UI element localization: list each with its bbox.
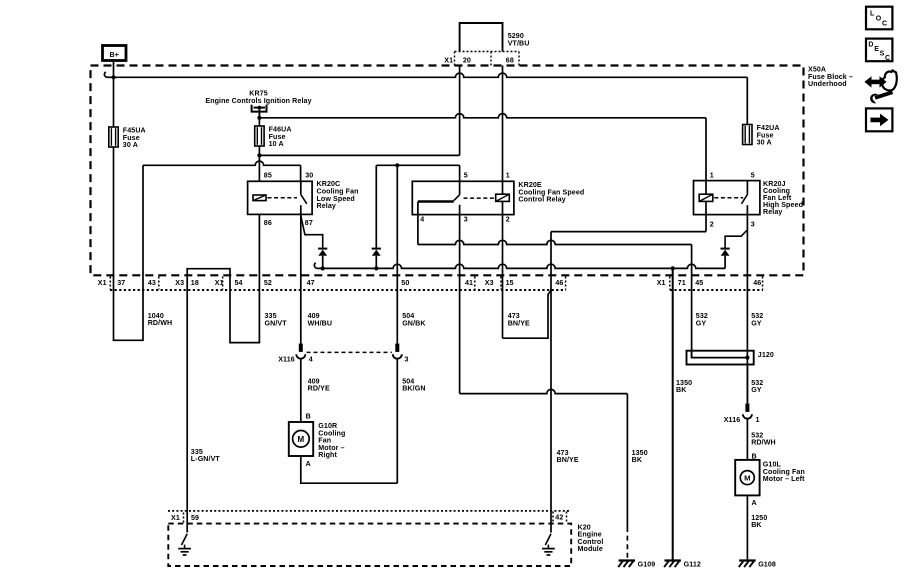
wire diode to bus xyxy=(374,256,378,271)
svg-text:5: 5 xyxy=(751,171,755,179)
relay KR20C box xyxy=(248,181,313,214)
svg-text:52: 52 xyxy=(264,279,272,287)
suppression bus hook xyxy=(314,263,318,269)
svg-text:10 A: 10 A xyxy=(269,140,284,148)
module K20 connector dotted line xyxy=(168,510,571,512)
wire motor G10L to ground G108 xyxy=(746,495,748,560)
wire X116-3 to motor A loop xyxy=(396,359,398,483)
label 335 GN/VT xyxy=(265,312,288,327)
wire suppression branch left xyxy=(375,165,377,248)
connector face dotted line xyxy=(110,289,763,291)
svg-text:Engine Controls Ignition Relay: Engine Controls Ignition Relay xyxy=(205,97,311,105)
diode suppression KR20J xyxy=(721,249,730,256)
labels bottom connector pins xyxy=(98,279,761,287)
svg-text:87: 87 xyxy=(305,219,313,227)
svg-text:RD/WH: RD/WH xyxy=(148,319,173,327)
svg-text:1: 1 xyxy=(756,416,760,424)
wire loop 1040 RD/WH pins 37-43 xyxy=(114,147,144,340)
relay KR20J box xyxy=(694,181,760,215)
label X116-1 xyxy=(724,416,760,424)
wire KR20C pin 86 via X1-52 54 to X3-18 to ECM xyxy=(187,214,259,532)
diode suppression KR20C xyxy=(318,249,327,256)
svg-text:Module: Module xyxy=(578,545,603,553)
relay KR20E contact link xyxy=(464,197,495,199)
wire J120 to X116-1 xyxy=(746,365,748,404)
wire KR20E pin 4 to X1-45 and J120 xyxy=(418,202,692,358)
svg-text:Relay: Relay xyxy=(317,202,336,210)
relay KR20C switch xyxy=(301,181,307,214)
svg-text:GY: GY xyxy=(696,320,707,328)
svg-text:BN/YE: BN/YE xyxy=(508,320,530,328)
svg-text:Relay: Relay xyxy=(763,208,782,216)
motor G10R symbol xyxy=(293,431,310,448)
svg-text:X3: X3 xyxy=(485,279,494,287)
label motor G10L xyxy=(763,461,805,483)
svg-text:GY: GY xyxy=(751,386,762,394)
svg-text:X116: X116 xyxy=(724,416,741,424)
svg-text:D: D xyxy=(868,42,873,49)
suppression bus xyxy=(319,264,726,268)
svg-text:G112: G112 xyxy=(684,560,701,568)
svg-text:J120: J120 xyxy=(758,351,774,359)
label X50A Fuse Block - Underhood xyxy=(808,66,853,89)
svg-text:G109: G109 xyxy=(638,560,656,568)
svg-text:Right: Right xyxy=(318,451,337,459)
icon button arrow xyxy=(866,108,892,131)
svg-text:30 A: 30 A xyxy=(757,139,772,147)
label 504 BK/GN xyxy=(402,377,425,392)
svg-text:46: 46 xyxy=(753,279,761,287)
svg-text:A: A xyxy=(752,499,757,507)
svg-text:59: 59 xyxy=(191,514,199,522)
motor G10L box xyxy=(735,460,759,496)
svg-text:B+: B+ xyxy=(109,51,118,59)
svg-text:2: 2 xyxy=(710,220,714,228)
label 473 BN/YE loop xyxy=(508,312,530,327)
wire B+ down to fuse F45UA xyxy=(113,61,115,127)
svg-text:X1: X1 xyxy=(98,279,107,287)
wire KR75 to fuse F46UA xyxy=(258,112,260,126)
svg-text:VT/BU: VT/BU xyxy=(508,39,530,47)
module K20 switch pin 59 xyxy=(182,534,188,545)
label 335 L-GN/VT xyxy=(191,448,221,463)
motor G10L symbol xyxy=(740,471,754,485)
svg-text:Control Relay: Control Relay xyxy=(518,196,565,204)
motor G10R box xyxy=(289,422,313,456)
svg-text:GN/VT: GN/VT xyxy=(265,320,288,328)
svg-text:GN/BK: GN/BK xyxy=(402,320,426,328)
junction J120 xyxy=(745,356,749,360)
svg-text:30 A: 30 A xyxy=(123,141,138,149)
junction KR20C diode xyxy=(321,266,325,270)
wire F46UA down to KR20C pin 85 xyxy=(258,146,260,181)
ground G108 xyxy=(739,560,776,568)
svg-text:86: 86 xyxy=(264,219,272,227)
wire KR20E pin 3 to X1-41 xyxy=(459,215,461,394)
svg-text:BN/YE: BN/YE xyxy=(557,456,579,464)
junction block J120 box xyxy=(687,351,754,365)
relay KR20J switch xyxy=(742,181,748,215)
module K20 dashed box xyxy=(168,524,571,566)
svg-text:E: E xyxy=(874,46,879,53)
label motor G10R pins xyxy=(306,413,311,468)
ignition bus from KR75 xyxy=(259,114,706,118)
fuse F45UA xyxy=(109,127,118,147)
wire 1350 BK to ground G112 xyxy=(672,268,674,560)
svg-text:3: 3 xyxy=(751,220,755,228)
svg-text:4: 4 xyxy=(309,356,313,364)
svg-text:71: 71 xyxy=(678,279,686,287)
label 532 RD/WH xyxy=(751,431,776,446)
junction F46UA output xyxy=(257,153,261,157)
junction KR75 output xyxy=(257,116,261,120)
svg-text:C: C xyxy=(882,20,887,27)
ground G109 xyxy=(618,560,655,568)
svg-text:1: 1 xyxy=(710,171,714,179)
label 1250 BK xyxy=(751,514,767,529)
wire loop 473 BN/YE pins 15-46 xyxy=(503,290,552,338)
ground G112 xyxy=(664,560,701,568)
svg-text:BK: BK xyxy=(751,521,762,529)
wire KR20J pin 2 to X3-46 and ECM 42 xyxy=(551,201,706,532)
wire loop 5290 VT/BU xyxy=(460,23,503,52)
svg-text:20: 20 xyxy=(463,56,471,64)
svg-text:50: 50 xyxy=(401,279,409,287)
ground internal ECM pin 59 xyxy=(178,545,191,555)
wire KR20C pin 87 to X1-47 xyxy=(300,214,302,344)
fuse F46UA xyxy=(255,126,264,146)
icon button LOC xyxy=(866,7,892,30)
svg-text:4: 4 xyxy=(420,215,424,223)
ground internal ECM pin 42 xyxy=(542,545,555,555)
junction ground tap 1350 xyxy=(671,266,675,270)
module K20 switch pin 42 xyxy=(545,534,551,545)
svg-text:37: 37 xyxy=(117,279,125,287)
svg-text:42: 42 xyxy=(555,514,563,522)
svg-text:M: M xyxy=(298,435,305,444)
wire diode KR20C to bus xyxy=(322,256,324,269)
svg-text:X116: X116 xyxy=(278,356,295,364)
label 5290 VT/BU xyxy=(508,32,530,47)
svg-text:O: O xyxy=(876,15,882,22)
label 532 GY pin45 xyxy=(696,312,708,327)
connector X116 link xyxy=(307,351,392,353)
svg-text:15: 15 xyxy=(506,279,514,287)
label relay KR20E xyxy=(518,181,584,204)
svg-text:G108: G108 xyxy=(758,560,776,568)
svg-text:M: M xyxy=(744,473,750,482)
battery feed B+ symbol xyxy=(103,46,127,61)
label 409 RD/YE xyxy=(308,377,330,392)
svg-text:WH/BU: WH/BU xyxy=(308,320,333,328)
label 473 BN/YE lower xyxy=(557,449,579,464)
label relay KR20C xyxy=(317,180,359,210)
relay KR20J coil xyxy=(699,194,713,201)
svg-text:3: 3 xyxy=(405,356,409,364)
wire X1-68 down to KR20E pin 1 xyxy=(502,66,504,195)
bus from B+ hook xyxy=(104,72,747,78)
label X116 mid xyxy=(278,356,408,364)
svg-text:B: B xyxy=(306,413,311,421)
wire KR20E pin3 1350 BK to ground G109 xyxy=(460,389,628,558)
svg-text:X1: X1 xyxy=(171,514,180,522)
svg-text:5: 5 xyxy=(464,171,468,179)
diode suppression left-center xyxy=(372,249,381,256)
svg-text:X3: X3 xyxy=(175,279,184,287)
svg-text:85: 85 xyxy=(264,171,272,179)
label 1040 RD/WH xyxy=(148,312,173,327)
wire KR20E pin 5 feed xyxy=(376,165,459,181)
label motor G10R xyxy=(318,422,345,459)
junction block J120 inner wire xyxy=(692,351,748,358)
wire X116-4 to motor B xyxy=(300,359,302,422)
label J120 xyxy=(758,351,774,359)
label K20 pins xyxy=(171,512,567,524)
svg-text:C: C xyxy=(885,55,890,62)
wire bus down to fuse F42UA xyxy=(746,77,748,124)
label motor G10L pins xyxy=(752,452,757,506)
svg-text:Underhood: Underhood xyxy=(808,80,847,88)
svg-text:45: 45 xyxy=(695,279,703,287)
svg-text:68: 68 xyxy=(506,56,514,64)
svg-text:2: 2 xyxy=(506,215,510,223)
svg-text:46: 46 xyxy=(555,279,563,287)
svg-text:X1: X1 xyxy=(444,56,453,64)
relay KR20C coil xyxy=(253,195,266,201)
label connector X1 top xyxy=(444,56,514,64)
label KR20C pins xyxy=(264,171,313,227)
connector X116-4 xyxy=(296,344,305,359)
label fuse F42UA xyxy=(757,124,780,147)
wire fused ignition to X1-20 xyxy=(259,154,459,156)
connector X116-3 xyxy=(393,344,402,359)
relay KR20E switch xyxy=(418,181,460,214)
svg-text:L-GN/VT: L-GN/VT xyxy=(191,455,221,463)
label 1350 BK upper xyxy=(676,379,692,394)
label relay KR20J xyxy=(763,180,803,216)
svg-text:GY: GY xyxy=(751,320,762,328)
svg-text:X1: X1 xyxy=(215,279,224,287)
icon button DESC xyxy=(866,39,892,62)
label 532 GY lower xyxy=(751,379,763,394)
relay KR20C contact link xyxy=(268,197,298,199)
connector X116-1 xyxy=(743,404,752,419)
label module K20 xyxy=(578,524,604,554)
wire X116-1 to motor G10L xyxy=(746,419,748,460)
junction B+ bus xyxy=(111,75,115,79)
svg-text:18: 18 xyxy=(191,279,199,287)
wire X1-20 down to splice xyxy=(459,66,461,156)
svg-text:S: S xyxy=(880,50,885,57)
fuse F42UA xyxy=(743,125,752,145)
relay KR20E box xyxy=(412,181,514,214)
svg-text:1: 1 xyxy=(506,171,510,179)
svg-text:41: 41 xyxy=(465,279,473,287)
wire X1-50 down to X116-3 xyxy=(396,165,398,344)
svg-text:Motor – Left: Motor – Left xyxy=(763,475,805,483)
relay KR75 contact symbol xyxy=(252,105,267,118)
connector X1 top dotted box xyxy=(455,52,520,66)
svg-text:L: L xyxy=(870,10,875,17)
wire KR20E coil to X3-15 xyxy=(502,201,504,338)
label fuse F46UA xyxy=(269,126,292,149)
svg-text:54: 54 xyxy=(235,279,243,287)
connector brackets xyxy=(110,277,762,290)
svg-text:BK: BK xyxy=(676,386,687,394)
svg-text:RD/WH: RD/WH xyxy=(751,439,776,447)
svg-text:3: 3 xyxy=(464,215,468,223)
svg-text:X1: X1 xyxy=(657,279,666,287)
label 1350 BK G109 xyxy=(632,449,648,464)
label 409 WH/BU xyxy=(308,312,333,327)
svg-text:BK: BK xyxy=(632,456,643,464)
svg-text:47: 47 xyxy=(307,279,315,287)
label KR20J pins xyxy=(710,171,755,228)
svg-text:30: 30 xyxy=(305,171,313,179)
label KR20E pins xyxy=(420,171,510,223)
junction pin 50 tap xyxy=(395,163,399,167)
label fuse F45UA xyxy=(123,127,146,150)
relay KR20E coil xyxy=(496,194,510,201)
svg-text:43: 43 xyxy=(148,279,156,287)
wire diode KR20J up to pin 3 xyxy=(725,230,747,249)
wire KR20C suppression branch xyxy=(301,216,323,249)
icon service tools xyxy=(864,71,896,104)
wire KR20J suppression branch xyxy=(724,256,726,269)
wire fuse F45UA output via X1-43 to KR20C pin 30 xyxy=(143,161,301,181)
relay KR20J contact link xyxy=(714,197,743,199)
svg-text:BK/GN: BK/GN xyxy=(402,385,425,393)
svg-text:RD/YE: RD/YE xyxy=(308,385,330,393)
label 504 GN/BK xyxy=(402,312,426,327)
wire KR20J pin 3 to X1-46 xyxy=(746,215,748,404)
wire ignition bus down to relay KR20J pin 1 xyxy=(705,118,707,194)
fuse block X50A dashed outline xyxy=(91,66,804,276)
svg-text:A: A xyxy=(306,460,311,468)
wire motor G10R return xyxy=(301,456,398,483)
label 532 GY pin46 xyxy=(751,312,763,327)
relay KR75 label xyxy=(205,89,311,105)
